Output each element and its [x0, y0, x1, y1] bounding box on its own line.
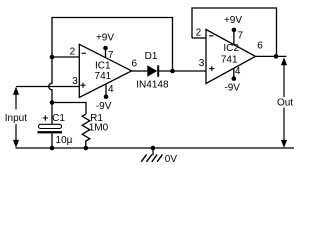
supply pin 7 lead IC2	[233, 30, 235, 45]
wire R1 branch horizontal	[52, 103, 86, 115]
supply pin 4 lead IC1	[105, 84, 107, 97]
ground symbol hatching	[141, 154, 162, 161]
polarity marks	[43, 36, 215, 121]
svg-text:Out: Out	[277, 98, 293, 109]
op-amp U2 IC2 triangle	[206, 30, 256, 84]
wire IC2 feedback loop	[192, 8, 277, 56]
wire IC2 output	[256, 55, 287, 57]
svg-text:Input: Input	[5, 113, 27, 124]
svg-text:3: 3	[199, 58, 205, 69]
wire ground rail 0V	[16, 147, 295, 149]
svg-text:-9V: -9V	[224, 83, 240, 94]
plus C1 polarity	[43, 115, 48, 120]
output dimension arrow	[281, 57, 287, 148]
wire IC1 output to D1 anode	[132, 70, 148, 72]
svg-text:2: 2	[70, 47, 76, 58]
supply pin 4 lead IC2	[233, 68, 235, 78]
node junction dots	[50, 28, 279, 151]
svg-text:741: 741	[95, 71, 112, 82]
svg-text:0V: 0V	[165, 154, 178, 165]
svg-text:D1: D1	[145, 51, 158, 62]
plus input IC1	[81, 83, 86, 88]
capacitor C1 plates	[38, 124, 63, 133]
plus input IC2	[209, 66, 214, 71]
svg-text:1M0: 1M0	[89, 123, 109, 134]
wire D1 cathode to IC2 pin3	[158, 70, 206, 72]
minus input IC2	[209, 35, 214, 37]
svg-text:-9V: -9V	[96, 101, 112, 112]
minus input IC1	[82, 52, 87, 54]
svg-text:7: 7	[108, 50, 114, 61]
svg-text:+9V: +9V	[96, 33, 114, 44]
diode D1	[147, 65, 158, 76]
svg-text:4: 4	[108, 84, 114, 95]
input dimension arrow	[13, 87, 19, 148]
svg-text:10µ: 10µ	[56, 135, 73, 146]
wire pin2 stub IC1	[52, 56, 79, 58]
svg-text:+9V: +9V	[224, 15, 242, 26]
op-amp U1 IC1 triangle	[79, 44, 131, 97]
svg-text:IC2: IC2	[223, 43, 239, 54]
svg-text:IN4148: IN4148	[136, 79, 169, 90]
svg-text:4: 4	[235, 66, 241, 77]
resistor R1	[82, 114, 90, 148]
svg-text:IC1: IC1	[95, 61, 111, 72]
svg-text:741: 741	[221, 55, 238, 66]
wire pin2 stub IC2	[192, 37, 206, 39]
supply pin 7 lead IC1	[105, 48, 107, 58]
svg-text:3: 3	[72, 76, 78, 87]
wire input to IC1 pin3	[16, 86, 79, 88]
svg-text:6: 6	[257, 41, 263, 52]
svg-text:7: 7	[238, 31, 244, 42]
ground stub	[152, 148, 154, 155]
wire IC1 feedback loop (pin2 to D1 cathode node)	[52, 18, 173, 72]
svg-text:6: 6	[132, 59, 138, 70]
svg-text:C1: C1	[52, 113, 65, 124]
svg-text:2: 2	[196, 28, 202, 39]
wire C1 branch with hop over input wire	[49, 57, 52, 124]
wire C1 bottom lead	[51, 134, 53, 149]
